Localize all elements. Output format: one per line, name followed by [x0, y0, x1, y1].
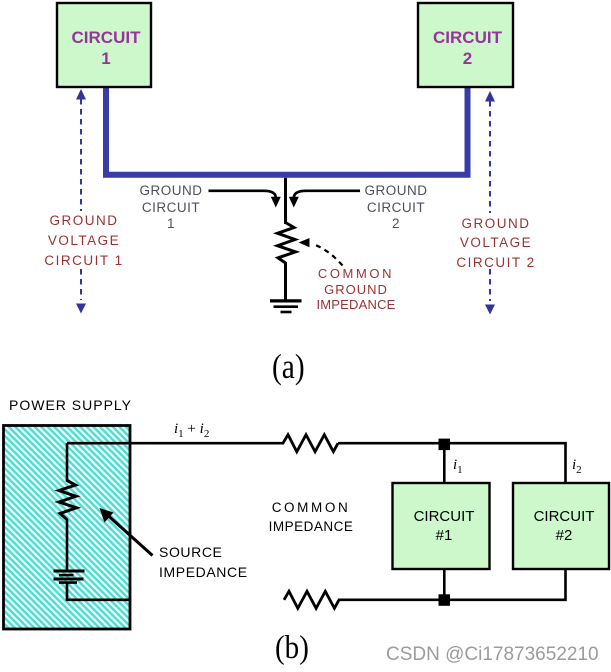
label: CIRCUIT 1 box text: [59, 27, 153, 69]
label: CIRCUIT 2 box text: [420, 27, 515, 69]
battery symbol (power supply source): [54, 571, 85, 583]
wire: top rail from power supply to common impedance resistor: [67, 442, 284, 445]
label: GROUND VOLTAGE CIRCUIT 2: [436, 214, 556, 273]
block: POWER SUPPLY box with hatched fill: [4, 426, 131, 630]
label: i1 + i2 current: [174, 421, 209, 440]
label: i2 current: [572, 457, 582, 476]
node: junction of i1 on top rail: [439, 439, 451, 451]
wire: circuit #2 return to bottom rail: [450, 570, 566, 600]
wire: drop from top-rail junction into circuit #1: [443, 448, 446, 482]
label: COMMON IMPEDANCE: [251, 498, 371, 537]
label: POWER SUPPLY: [9, 397, 132, 413]
block: CIRCUIT #1: [393, 483, 490, 569]
wire: lead from source impedance to battery: [66, 519, 69, 570]
label: CIRCUIT #2 box text: [516, 508, 611, 545]
label: SOURCE IMPEDANCE: [159, 543, 248, 582]
block: CIRCUIT 2 (part a): [418, 3, 513, 87]
resistor: common ground impedance (part a): [278, 223, 296, 264]
arrow: dashed blue ground-voltage arrow circuit 2 (double headed): [485, 91, 495, 315]
wire: top rail from resistor to circuit 2 drop: [338, 443, 566, 482]
wire: pointer from GROUND CIRCUIT 2 label with arrowhead into node: [289, 191, 360, 208]
wire: power supply internal top lead: [66, 443, 69, 481]
arrow: dashed pointer from COMMON GROUND IMPEDANCE label to resistor: [299, 238, 343, 266]
label: CIRCUIT #1 box text: [395, 508, 493, 545]
label: i1 current: [453, 457, 463, 476]
block: CIRCUIT #2: [513, 483, 609, 569]
label: GROUND VOLTAGE CIRCUIT 1: [24, 211, 144, 270]
label: (a) caption: [272, 347, 305, 387]
label: GROUND CIRCUIT 1: [111, 183, 231, 233]
wire: thick blue ground wire linking circuit 1 and circuit 2: [106, 86, 468, 175]
resistor: source impedance (vertical, inside power supply): [59, 481, 77, 520]
arrow: dashed blue ground-voltage arrow circuit 1 (double headed): [76, 89, 86, 314]
wire: battery to bottom rail inside power supply: [67, 583, 131, 600]
ground symbol (part a): [270, 301, 302, 312]
label: COMMON GROUND IMPEDANCE: [296, 266, 416, 313]
watermark: CSDN @Ci17873652210: [386, 644, 599, 666]
label: (b) caption: [275, 630, 309, 667]
arrow: pointer from SOURCE IMPEDANCE label to source resistor: [100, 508, 153, 556]
wire: lead from common impedance to ground: [284, 262, 287, 300]
wire: vertical lead from blue ground bus to common impedance: [284, 178, 287, 224]
wire: circuit #1 return to bottom junction: [443, 570, 446, 596]
resistor: common impedance bottom rail: [284, 591, 339, 608]
resistor: common impedance top rail: [283, 435, 338, 452]
wire: bottom rail from resistor to junction: [338, 598, 440, 601]
node: junction on bottom rail: [439, 594, 451, 606]
block: CIRCUIT 1 (part a): [57, 3, 151, 87]
wire: pointer from GROUND CIRCUIT 1 label with arrowhead into node: [209, 191, 281, 208]
label: GROUND CIRCUIT 2: [336, 183, 456, 233]
